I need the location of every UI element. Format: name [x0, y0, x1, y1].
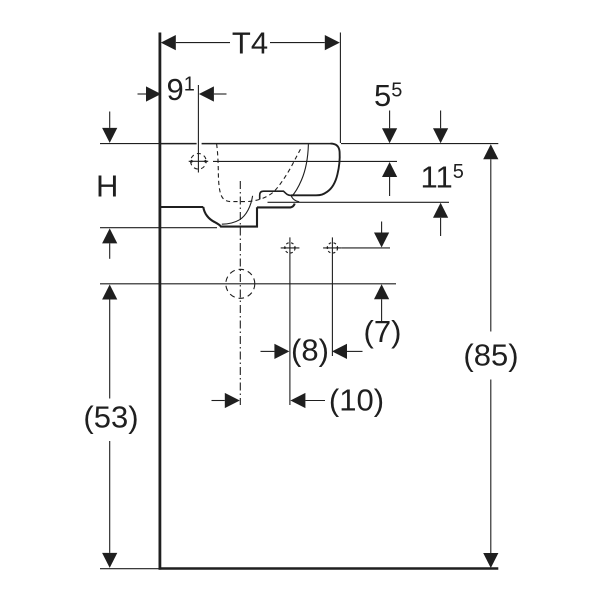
basin top rim line (thick, gap at tap centerline)	[160, 143, 331, 145]
wall line	[158, 33, 161, 570]
fixing holes horizontal line right part	[342, 247, 390, 249]
top rim extension line left of wall	[100, 143, 159, 145]
bowl hidden outline (dashed)	[217, 144, 302, 202]
bowl front edge thin curve	[292, 144, 309, 202]
trap bottom extension line left of wall	[100, 227, 217, 229]
dimension H arrows	[109, 112, 111, 128]
top rim extension line right of basin	[341, 143, 498, 145]
svg-text:55: 55	[374, 78, 402, 113]
tap hole centerline horizontal	[189, 160, 209, 162]
svg-text:T4: T4	[232, 26, 268, 61]
trap cover outline	[203, 207, 257, 227]
trap inner thin arc	[222, 196, 253, 224]
dimension 11.5 arrows	[440, 111, 442, 129]
fixing hole 2 cross	[323, 247, 342, 249]
dimension (8) arrows	[261, 350, 275, 352]
svg-text:91: 91	[167, 72, 195, 107]
drain center horizontal line	[100, 283, 396, 285]
tap hole centerline vertical	[197, 85, 199, 173]
drain centerline (dash-dot)	[239, 181, 241, 405]
dimension (85) line and arrows	[490, 159, 492, 331]
floor line	[159, 567, 499, 570]
svg-text:(53): (53)	[83, 400, 138, 435]
tap hole diamond mark left	[190, 160, 194, 163]
svg-text:(10): (10)	[329, 383, 384, 418]
dimension 5.5 arrows	[389, 111, 391, 129]
svg-text:(85): (85)	[463, 338, 518, 373]
svg-text:H: H	[96, 169, 118, 204]
basin right outer edge	[291, 144, 340, 196]
floor extension line left of wall	[100, 568, 159, 570]
basin underside behind trap with hook end	[257, 204, 295, 208]
tap height extension line y161	[213, 160, 397, 162]
dimension (7) arrows	[381, 222, 383, 233]
svg-text:(7): (7)	[364, 314, 402, 349]
tap hole dashed circle	[191, 154, 207, 170]
drain hole dashed circle	[226, 269, 255, 298]
dimension (10) arrows	[212, 400, 225, 402]
basin underside near wall (thick)	[160, 206, 203, 208]
svg-text:(8): (8)	[291, 333, 329, 368]
dimension (53) line and arrows	[109, 300, 111, 399]
tap hole diamond mark right	[203, 160, 207, 163]
dimension 9.1	[138, 93, 147, 95]
svg-text:115: 115	[421, 160, 464, 195]
extension line y202 for 11.5 dim	[268, 201, 450, 203]
dimension T4	[339, 33, 341, 144]
basin underside step line	[260, 191, 291, 199]
fixing hole 1 cross	[281, 247, 300, 249]
